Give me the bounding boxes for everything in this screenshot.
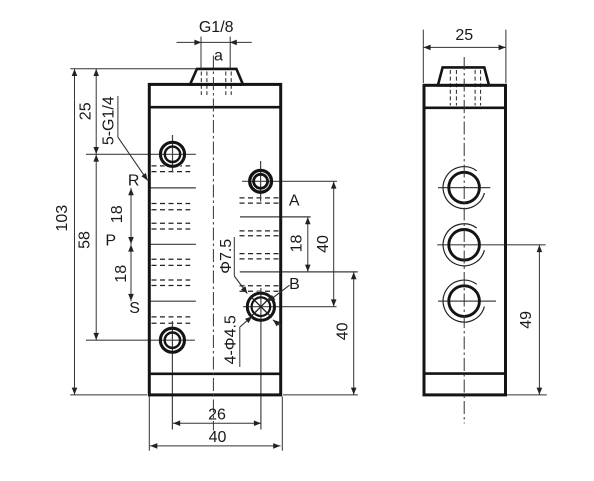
front view top cap line <box>148 106 282 109</box>
svg-text:40: 40 <box>209 429 227 446</box>
front view port line A <box>240 216 311 218</box>
label 25 front <box>78 102 95 120</box>
dimension 26 line with arrows <box>173 420 261 426</box>
label Phi7.5 with leader arrow <box>218 237 247 294</box>
side view port hole white fills <box>447 170 482 318</box>
label 5-G1/4 with leader arrow <box>101 96 148 180</box>
label A <box>289 193 300 210</box>
front view port line P <box>149 243 196 245</box>
side view hole 2 (circle with thread arc) <box>443 224 484 266</box>
dimension 18 A-B line with arrows <box>305 217 311 272</box>
label 18 P-S <box>113 265 130 283</box>
svg-text:49: 49 <box>518 311 535 329</box>
dimension 18 P-S line with arrows <box>128 244 134 301</box>
front view hidden thread dashes in top boss <box>201 72 231 96</box>
svg-text:R: R <box>128 173 140 190</box>
side view hidden thread dashes in boss <box>450 70 480 106</box>
port hole A (circle pair) <box>250 170 272 192</box>
label B <box>289 276 300 293</box>
port hole R (circle pair) <box>160 142 184 166</box>
label 4-Phi4.5 with leader arrow <box>223 315 252 367</box>
label G1/8 <box>199 19 234 36</box>
dimension 58 line with arrows <box>93 154 99 340</box>
label 18 A-B <box>288 235 305 253</box>
label 40 hole-to-hole <box>315 235 332 253</box>
dimension G1/8 extension lines <box>201 37 230 69</box>
dimension 103 line with arrows <box>72 69 78 395</box>
label 40 bottom <box>209 429 227 446</box>
side view bottom cap line <box>423 372 508 375</box>
side view top cap line <box>423 107 508 110</box>
side view vertical centerline <box>463 57 465 424</box>
label 49 <box>518 311 535 329</box>
side view body outline <box>424 85 506 395</box>
side crosshair hole 1 <box>438 187 490 189</box>
svg-text:18: 18 <box>109 205 126 223</box>
dimension 25 line with arrows side view <box>423 45 506 51</box>
svg-text:40: 40 <box>315 235 332 253</box>
crosshair A port <box>242 161 337 202</box>
label a <box>214 48 223 65</box>
label 103 <box>54 205 71 232</box>
svg-text:58: 58 <box>76 231 93 249</box>
label 25 side view <box>455 27 473 44</box>
svg-text:Φ7.5: Φ7.5 <box>218 239 235 274</box>
dimension G1/8 line with arrows <box>177 40 252 46</box>
dimension 49 line with arrows <box>537 245 543 395</box>
port hole white fills <box>158 140 276 354</box>
svg-text:18: 18 <box>288 235 305 253</box>
front view port line R <box>149 187 196 189</box>
dimension 25 extension lines side view <box>423 30 506 83</box>
side view hole 3 (circle with thread arc) <box>443 280 484 322</box>
svg-text:a: a <box>214 48 223 65</box>
svg-text:26: 26 <box>208 407 226 424</box>
front view port line S <box>149 300 196 302</box>
dimension 18 R-P line with arrows <box>128 188 134 244</box>
label 26 <box>208 407 226 424</box>
front view hidden dashed lines left column <box>152 166 191 323</box>
label 40 B-to-bottom <box>334 322 351 340</box>
port hole S (circle pair) <box>160 328 184 352</box>
crosshair R port <box>86 135 196 173</box>
svg-text:25: 25 <box>455 27 473 44</box>
svg-text:A: A <box>289 193 300 210</box>
svg-text:S: S <box>129 300 140 317</box>
port hole B with cross (circle pair + X) <box>247 293 274 320</box>
svg-text:5-G1/4: 5-G1/4 <box>101 96 118 145</box>
bottom-left extension line for 103 <box>70 394 147 396</box>
side crosshair hole 2 <box>437 244 545 246</box>
svg-text:B: B <box>289 276 300 293</box>
label R <box>128 173 140 190</box>
front view top boss trapezoid <box>190 69 243 85</box>
label 18 R-P <box>109 205 126 223</box>
crosshair S port <box>86 321 195 430</box>
front view port line B <box>240 271 358 273</box>
side view top boss trapezoid <box>438 67 489 85</box>
svg-text:P: P <box>105 233 116 250</box>
side view hole 1 (circle with thread arc) <box>443 167 484 209</box>
bottom-right extension line <box>283 394 358 396</box>
top extension line for 103 and 25 <box>70 68 196 70</box>
dimension 40 bottom line with arrows <box>150 443 281 449</box>
dimension 40 B-to-bottom line with arrows <box>351 272 357 395</box>
svg-text:G1/8: G1/8 <box>199 19 234 36</box>
label S <box>129 300 140 317</box>
leader arrow from B label to hole <box>268 285 290 301</box>
svg-text:4-Φ4.5: 4-Φ4.5 <box>223 315 240 364</box>
svg-text:18: 18 <box>113 265 130 283</box>
svg-text:103: 103 <box>54 205 71 232</box>
extension line for 49 bottom <box>507 394 547 396</box>
leader arrow at lower-right of hole B <box>273 320 281 327</box>
dimension 40 hole-to-hole line with arrows <box>331 181 337 306</box>
front view bottom cap line <box>148 372 282 375</box>
svg-text:40: 40 <box>334 322 351 340</box>
svg-text:25: 25 <box>78 102 95 120</box>
extension lines for bottom 40 <box>149 397 282 451</box>
front view hidden dashed lines right column <box>240 198 282 291</box>
crosshair B port <box>243 288 337 430</box>
label 58 <box>76 231 93 249</box>
front view vertical centerline a-a <box>212 56 214 431</box>
label P <box>105 233 116 250</box>
front view body outline <box>149 84 280 395</box>
side crosshair hole 3 <box>438 300 496 302</box>
dimension 25 line with arrows <box>93 69 99 155</box>
